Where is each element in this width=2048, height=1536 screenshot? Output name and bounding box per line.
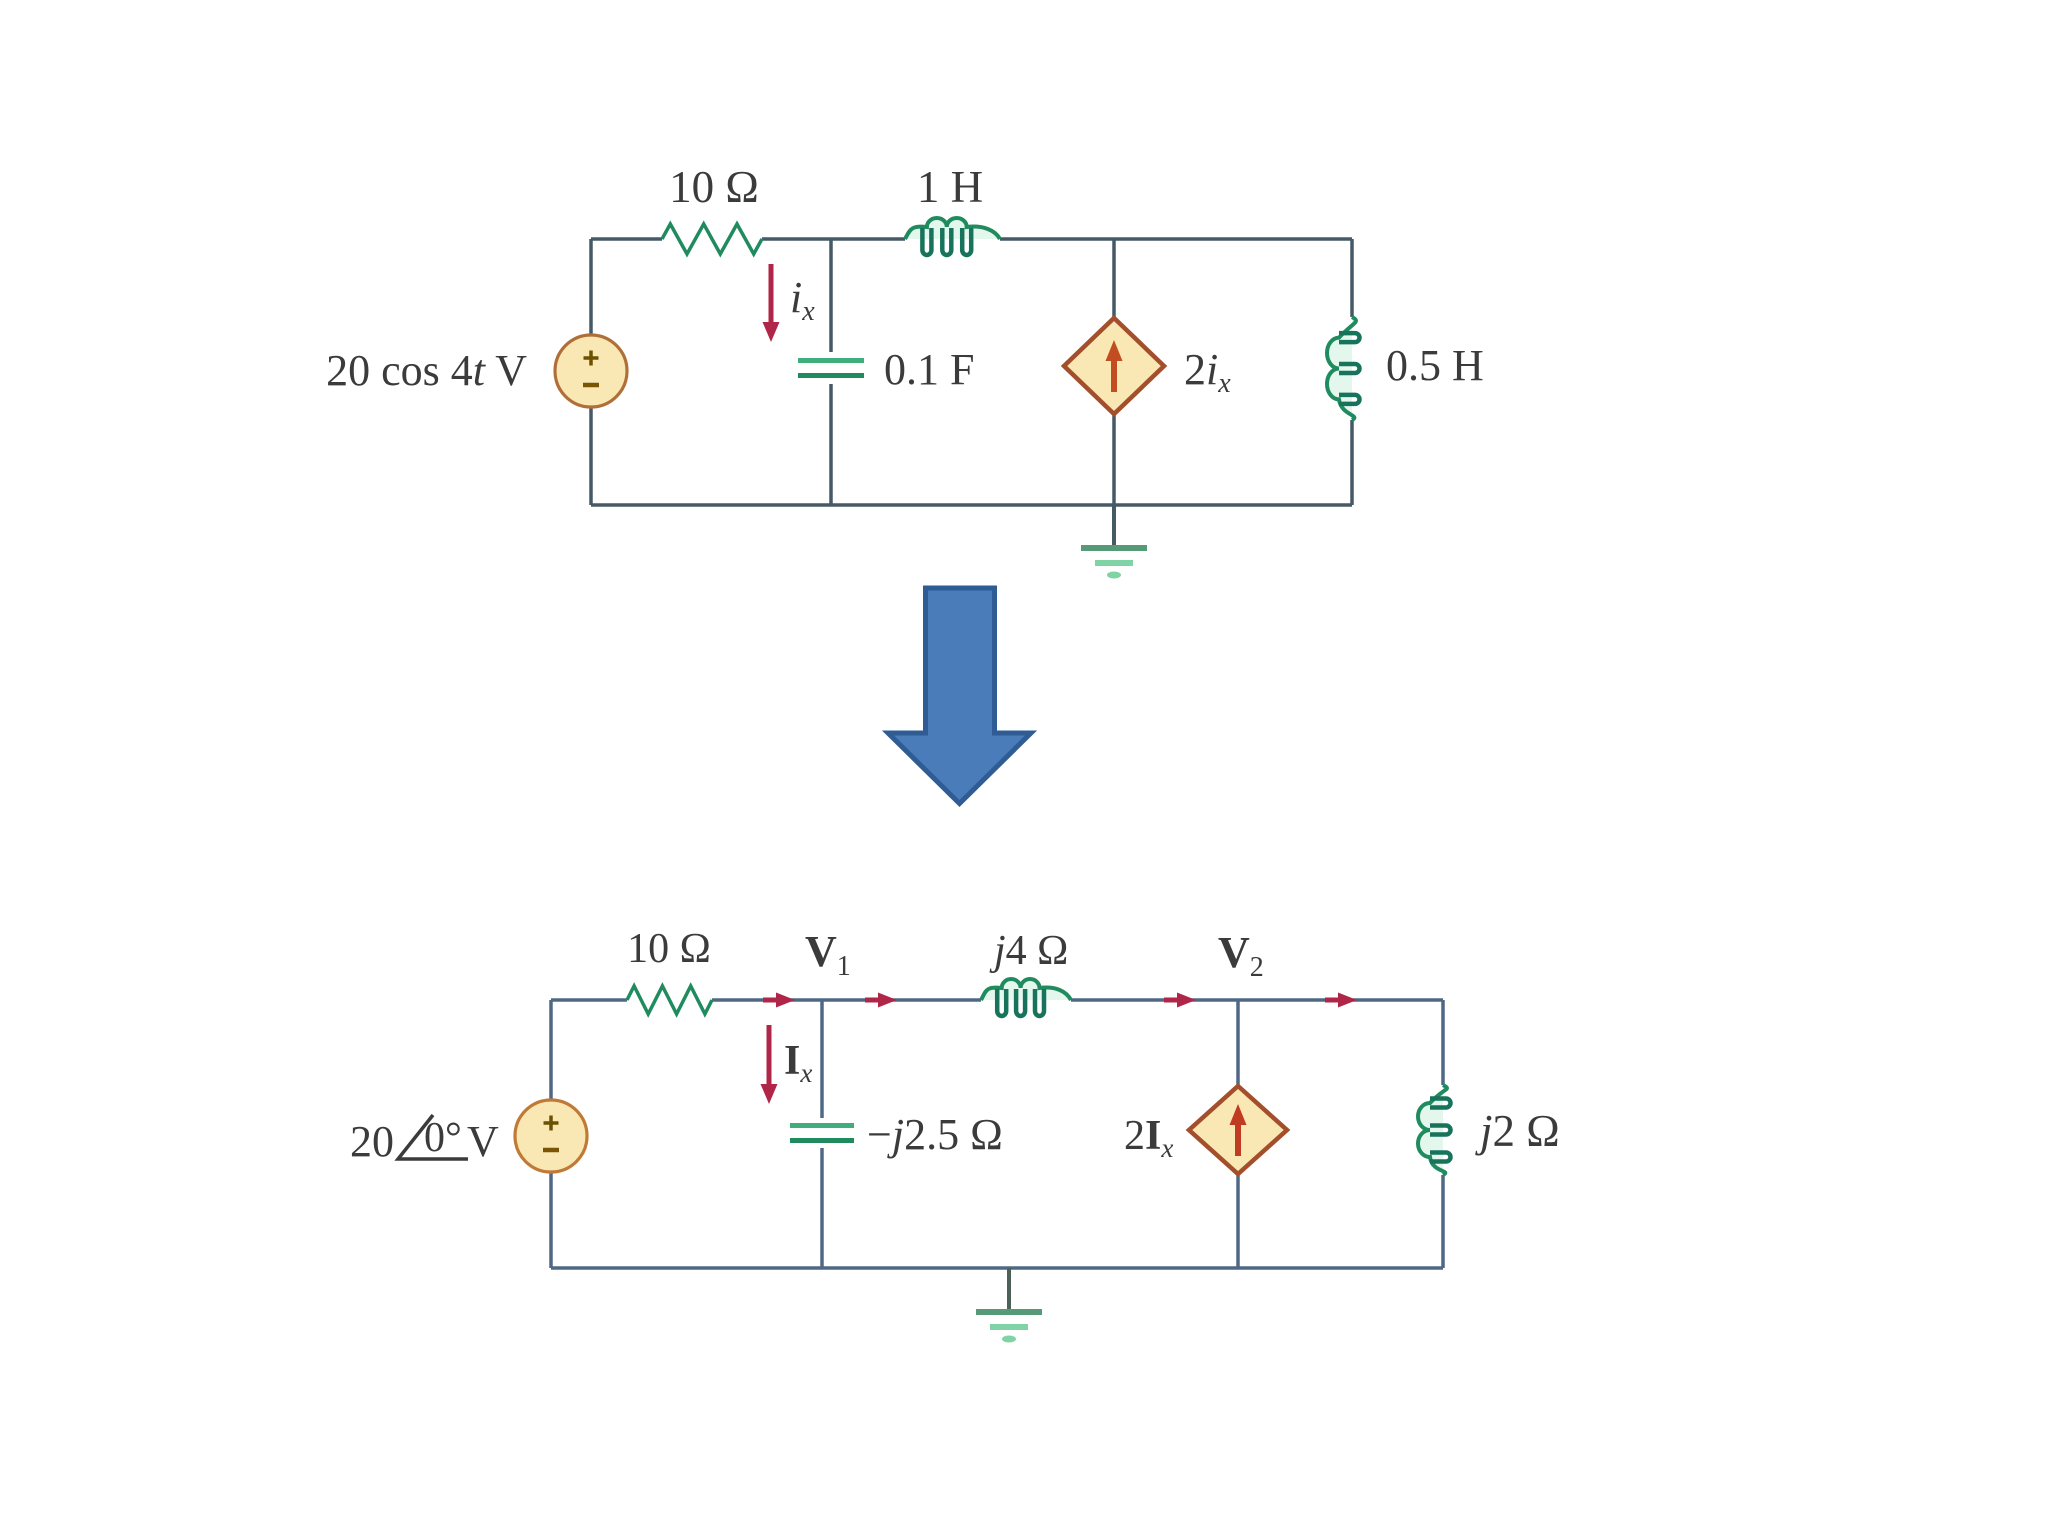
label "j2 ohm"	[1475, 1106, 1560, 1156]
current direction arrow 3 (j4 to V2)	[1164, 993, 1196, 1008]
label "Ix" (bottom circuit)	[784, 1038, 812, 1088]
current direction arrow 1 (into node V1)	[763, 993, 795, 1008]
label "20 cos 4t V"	[326, 346, 527, 395]
svg-text:1 H: 1 H	[917, 162, 983, 212]
svg-text:j4 Ω: j4 Ω	[989, 928, 1068, 974]
inductor j2 ohm	[1418, 1085, 1451, 1175]
svg-text:−j2.5 Ω: −j2.5 Ω	[867, 1110, 1003, 1159]
voltage source Vs (20 cos 4t V)	[555, 335, 627, 407]
svg-text:2ix: 2ix	[1184, 345, 1231, 399]
svg-text:20: 20	[350, 1117, 394, 1166]
wire: top circuit bottom rail	[591, 503, 1352, 507]
resistor R1 10 ohm (top circuit)	[662, 224, 762, 254]
label "10 ohm" (top circuit)	[669, 162, 759, 212]
svg-text:0°: 0°	[424, 1115, 462, 1161]
wire: capacitor branch node V at x=831	[829, 239, 833, 505]
svg-text:0.5 H: 0.5 H	[1386, 341, 1484, 390]
ground (bottom circuit)	[976, 1268, 1042, 1343]
node label V1	[805, 927, 851, 982]
node label V2	[1218, 928, 1264, 983]
svg-text:0.1 F: 0.1 F	[884, 345, 974, 394]
svg-text:V: V	[467, 1117, 499, 1166]
svg-text:j2 Ω: j2 Ω	[1475, 1106, 1560, 1156]
wire: top circuit top rail	[591, 237, 1352, 241]
label "j4 ohm"	[989, 928, 1068, 974]
svg-text:Ix: Ix	[784, 1038, 812, 1088]
capacitor C1 0.1 F	[798, 361, 864, 376]
label "10 ohm" (bottom circuit)	[627, 926, 711, 972]
svg-text:ix: ix	[790, 273, 815, 327]
wire: top circuit left branch	[589, 239, 593, 505]
svg-text:20 cos 4t V: 20 cos 4t V	[326, 346, 527, 395]
label "20 angle 0deg V"	[350, 1115, 499, 1166]
wire: node V2 / dependent source branch	[1236, 1000, 1240, 1268]
wire: node V1 branch	[820, 1000, 824, 1268]
label "1 H"	[917, 162, 983, 212]
inductor j4 ohm	[981, 979, 1071, 1016]
label "0.5 H"	[1386, 341, 1484, 390]
label "2Ix" (bottom circuit)	[1124, 1113, 1173, 1163]
label "ix" (top circuit)	[790, 273, 815, 327]
wire: bottom circuit top rail	[551, 998, 1443, 1002]
svg-text:10 Ω: 10 Ω	[669, 162, 759, 212]
wire: bottom circuit bottom rail	[551, 1266, 1443, 1270]
svg-text:V1: V1	[805, 927, 851, 982]
inductor L1 1 H	[905, 218, 1000, 255]
svg-text:2Ix: 2Ix	[1124, 1113, 1173, 1163]
svg-text:V2: V2	[1218, 928, 1264, 983]
resistor R1 10 ohm (bottom circuit)	[627, 986, 712, 1014]
current arrow ix (top circuit)	[763, 264, 780, 342]
wire: bottom circuit right branch	[1441, 1000, 1445, 1268]
dependent current source 2ix (top circuit)	[1064, 318, 1164, 414]
wire: bottom circuit left branch	[549, 1000, 553, 1268]
current direction arrow 2 (V1 to j4)	[865, 993, 897, 1008]
label "-j2.5 ohm"	[867, 1110, 1003, 1159]
label "0.1 F"	[884, 345, 974, 394]
svg-text:10 Ω: 10 Ω	[627, 926, 711, 972]
label "2ix" (top circuit)	[1184, 345, 1231, 399]
ground (top circuit)	[1081, 505, 1147, 579]
wire: top circuit right branch	[1350, 239, 1354, 505]
current arrow Ix (bottom circuit)	[761, 1025, 778, 1104]
current direction arrow 4 (V2 to j2)	[1325, 993, 1357, 1008]
inductor L2 0.5 H	[1327, 317, 1360, 420]
capacitor -j2.5 ohm	[790, 1126, 854, 1141]
wire: dependent source branch	[1112, 239, 1116, 505]
dependent current source 2Ix (bottom circuit)	[1189, 1086, 1287, 1174]
voltage source Vs (20 angle 0 V)	[515, 1100, 587, 1172]
big blue down arrow (transformation)	[888, 588, 1031, 804]
